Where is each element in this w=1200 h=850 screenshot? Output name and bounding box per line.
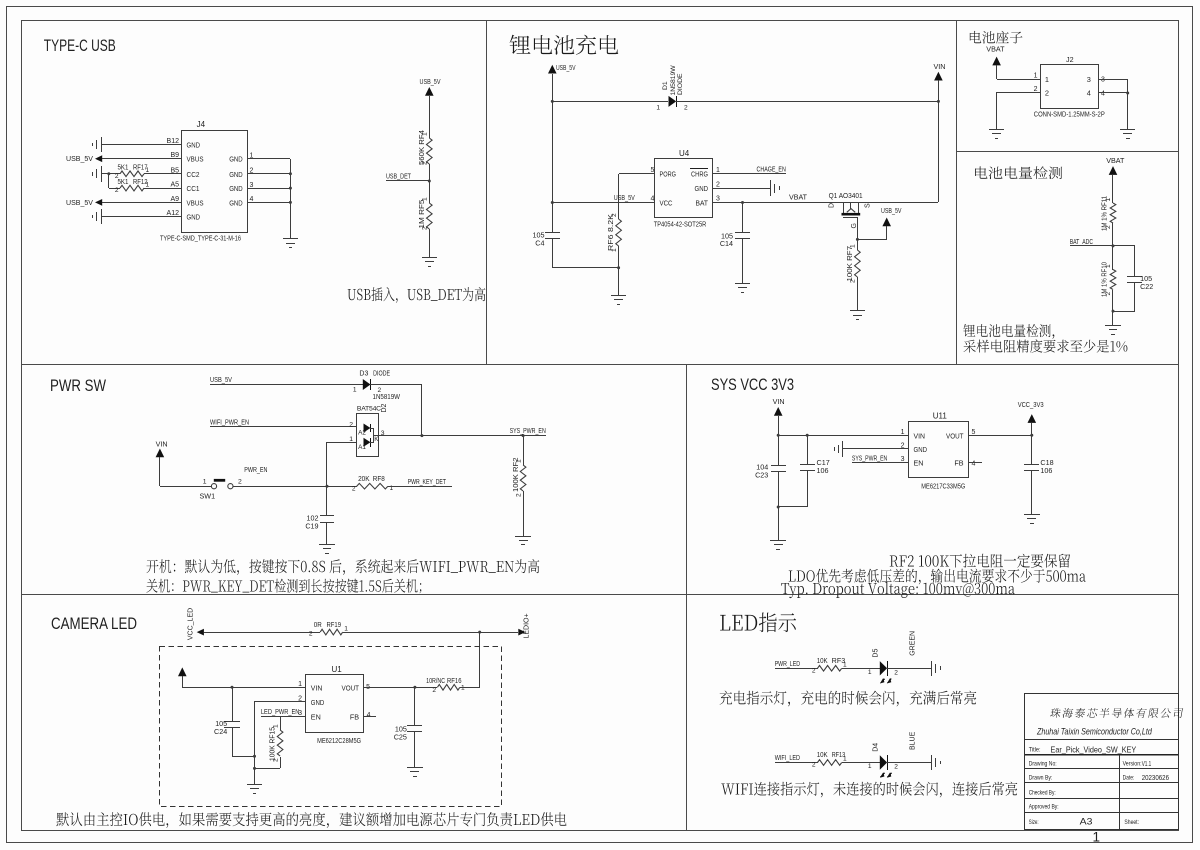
svg-text:VCC: VCC	[660, 198, 673, 207]
company name CJK	[1050, 708, 1184, 718]
svg-text:1: 1	[843, 662, 847, 669]
svg-text:LEDIO+: LEDIO+	[524, 613, 531, 638]
wire PORG to RF6 branch	[619, 173, 654, 175]
wire WIFI_PWR_EN to BAT54C pin2	[210, 426, 356, 428]
svg-text:10R/NC: 10R/NC	[426, 678, 445, 685]
svg-text:VBUS: VBUS	[187, 155, 204, 164]
svg-text:106: 106	[817, 466, 829, 475]
svg-text:Drawn By:: Drawn By:	[1029, 774, 1053, 781]
svg-text:3: 3	[901, 456, 905, 463]
svg-text:20K: 20K	[358, 476, 370, 483]
section title 电池座子	[970, 31, 1023, 44]
svg-text:5K1: 5K1	[118, 179, 129, 186]
svg-text:Sheet:: Sheet:	[1124, 819, 1139, 826]
ground under RF2	[523, 528, 525, 536]
resistor RF12 5K1	[120, 185, 144, 191]
note RF2 keep	[890, 554, 1070, 568]
svg-text:1: 1	[146, 181, 150, 188]
resistor RF2 100K pulldown	[523, 436, 525, 465]
power arrow inside dashed box	[178, 667, 187, 676]
capacitor C24 105	[232, 687, 234, 721]
wire CC2 row	[101, 173, 120, 175]
svg-text:1N5819W: 1N5819W	[670, 65, 677, 96]
svg-text:USB_5V: USB_5V	[556, 63, 576, 72]
svg-text:C24: C24	[214, 727, 227, 736]
wire RF6 bottom	[618, 246, 620, 268]
svg-text:3: 3	[716, 196, 720, 203]
svg-text:VIN: VIN	[156, 440, 168, 449]
svg-text:2: 2	[378, 387, 382, 394]
svg-text:1: 1	[1093, 830, 1101, 845]
svg-text:3: 3	[1087, 75, 1091, 84]
svg-text:2: 2	[272, 758, 279, 762]
svg-text:1: 1	[716, 167, 720, 174]
capacitor C19 102	[326, 486, 328, 516]
svg-text:VIN: VIN	[914, 431, 926, 440]
svg-text:CAMERA LED: CAMERA LED	[51, 614, 137, 633]
svg-text:2: 2	[1045, 89, 1049, 98]
svg-text:Approved By:: Approved By:	[1029, 804, 1059, 811]
branch to C22	[1113, 245, 1135, 247]
svg-text:Checked By:: Checked By:	[1029, 790, 1056, 797]
wire RF4 to node USB_DET	[429, 164, 431, 203]
svg-text:2: 2	[238, 479, 242, 486]
svg-text:1N5819W: 1N5819W	[373, 394, 401, 401]
svg-text:G: G	[851, 223, 858, 228]
svg-text:2: 2	[352, 486, 356, 493]
svg-text:1: 1	[422, 197, 429, 201]
section divider vertical between PWR SW and SYS VCC 3V3	[686, 365, 688, 594]
svg-text:2: 2	[894, 764, 898, 771]
svg-text:D: D	[829, 203, 836, 208]
rotated ground at U11 GND	[843, 448, 909, 450]
connector J4	[182, 131, 248, 233]
wire RF16 to corner	[460, 687, 480, 689]
wire USB_5V to D3	[210, 384, 363, 386]
top wire RF19 to LEDIO+	[343, 632, 518, 634]
svg-text:BAT: BAT	[696, 198, 709, 207]
wire VIN to SW1	[160, 486, 211, 488]
svg-text:A2: A2	[358, 430, 366, 437]
svg-text:D3: D3	[359, 371, 368, 378]
note battery gauge line2	[964, 339, 1128, 352]
svg-text:1: 1	[353, 387, 357, 394]
svg-text:RF19: RF19	[327, 622, 342, 629]
note power off	[146, 579, 421, 594]
title block frame	[1025, 694, 1179, 830]
FB stub	[968, 462, 982, 464]
svg-text:PORG: PORG	[660, 170, 677, 179]
svg-text:2: 2	[422, 226, 429, 230]
svg-text:GND: GND	[914, 445, 928, 454]
svg-text:GND: GND	[229, 184, 243, 193]
svg-text:RF6 8.2K: RF6 8.2K	[608, 214, 615, 251]
rotated ground at U4 GND	[712, 188, 770, 190]
svg-text:2: 2	[894, 669, 898, 676]
section divider horizontal between battery socket and battery gauge	[957, 151, 1179, 153]
svg-text:VCC_LED: VCC_LED	[188, 608, 195, 640]
ground at J4 pin B12	[101, 137, 103, 152]
push button SW1	[211, 484, 216, 489]
svg-text:EN: EN	[311, 712, 321, 721]
svg-text:10K: 10K	[817, 658, 828, 665]
section divider vertical between charging and battery column	[956, 21, 958, 365]
svg-text:2: 2	[298, 695, 302, 702]
svg-text:Version:: Version:	[1123, 760, 1142, 767]
section title 电池电量检测	[975, 166, 1062, 179]
svg-text:GREEN: GREEN	[910, 631, 917, 656]
note LDO dropout	[789, 569, 1086, 585]
wire RF5 to ground	[429, 229, 431, 250]
svg-text:V1.1: V1.1	[1142, 761, 1152, 768]
wire USB_5V vertical	[552, 74, 554, 232]
svg-text:S: S	[865, 203, 872, 208]
ground under RF10	[1112, 317, 1114, 325]
svg-text:DIODE: DIODE	[677, 73, 684, 95]
IC U4 TP4054	[655, 159, 713, 218]
note camera led supply	[56, 812, 566, 828]
VIN vertical wire	[938, 80, 940, 202]
IC U11 ME6217C33M5G	[909, 422, 969, 478]
rotated ground	[931, 755, 933, 770]
svg-text:U11: U11	[933, 412, 948, 421]
svg-text:BLUE: BLUE	[910, 731, 917, 750]
section title 锂电池充电	[510, 35, 619, 55]
wire VOUT to VCC_3V3	[968, 435, 1032, 437]
svg-text:ME6217C33M5G: ME6217C33M5G	[921, 484, 965, 491]
svg-text:1: 1	[868, 763, 872, 770]
wire BAT54C pin1 down to key line	[327, 442, 356, 444]
svg-text:1: 1	[349, 436, 353, 443]
svg-text:CC2: CC2	[187, 170, 200, 179]
svg-text:USB_5V: USB_5V	[420, 77, 441, 86]
resistor RF16 10R/NC	[437, 685, 459, 691]
top wire D1 to VIN corner	[676, 101, 938, 103]
svg-text:C25: C25	[394, 733, 407, 742]
svg-text:GND: GND	[229, 155, 243, 164]
svg-text:1: 1	[515, 459, 522, 463]
wire J2 pin1 to VBAT	[997, 79, 1040, 81]
svg-text:D5: D5	[872, 649, 879, 658]
svg-text:2: 2	[611, 213, 618, 217]
svg-text:GND: GND	[229, 170, 243, 179]
svg-text:GND: GND	[187, 140, 201, 149]
resistor RF3 10K	[818, 666, 842, 672]
ground under bus	[254, 776, 256, 784]
svg-text:2: 2	[422, 161, 429, 165]
svg-text:1: 1	[868, 669, 872, 676]
capacitor C17 106	[807, 435, 809, 464]
svg-text:ME6212C28M5G: ME6212C28M5G	[317, 738, 361, 745]
wire B9	[102, 158, 182, 160]
resistor RF17 5K1	[120, 171, 144, 177]
section divider vertical between CAMERA LED and LED indicator	[686, 594, 688, 830]
svg-text:3: 3	[298, 710, 302, 717]
section divider vertical between TYPE-C USB and charging	[486, 21, 488, 365]
svg-text:2: 2	[1105, 225, 1112, 229]
svg-text:C19: C19	[305, 522, 318, 531]
svg-text:WIFI_LED: WIFI_LED	[775, 753, 800, 762]
wire LEDIO+ down to RF16	[479, 632, 481, 687]
svg-text:VBUS: VBUS	[187, 198, 204, 207]
ground under C25	[414, 760, 416, 768]
svg-text:4: 4	[1101, 90, 1105, 97]
svg-text:USB_5V: USB_5V	[66, 154, 93, 163]
svg-text:1: 1	[1105, 264, 1112, 268]
svg-text:1: 1	[656, 105, 660, 112]
ground at CC resistors	[101, 166, 103, 182]
svg-text:VIN: VIN	[934, 62, 946, 71]
svg-text:LED_PWR_EN: LED_PWR_EN	[261, 707, 300, 716]
svg-text:2: 2	[812, 667, 816, 674]
wire RF3 to D5	[842, 668, 880, 670]
svg-text:4: 4	[1087, 89, 1091, 98]
svg-text:Size:: Size:	[1029, 819, 1039, 826]
svg-text:PWR_EN: PWR_EN	[244, 465, 267, 474]
LED D4 BLUE	[880, 755, 887, 769]
svg-text:C23: C23	[755, 471, 768, 480]
wire to PWR_KEY_DET	[388, 486, 452, 488]
svg-text:Drawing No:: Drawing No:	[1029, 760, 1057, 767]
capacitor C22 105	[1127, 276, 1142, 278]
note USB detect	[348, 287, 486, 303]
svg-text:2: 2	[115, 187, 119, 194]
svg-text:5: 5	[651, 167, 655, 174]
ground under C14	[742, 275, 744, 283]
section divider horizontal row2/row3	[22, 594, 1179, 596]
wire RF13 to D4	[842, 762, 880, 764]
wire D4 to ground	[887, 762, 931, 764]
wire VIN to U11	[778, 435, 909, 437]
wire VOUT	[364, 687, 437, 689]
svg-text:WIFI_PWR_EN: WIFI_PWR_EN	[210, 417, 249, 426]
resistor RF8 20K	[357, 483, 388, 489]
wire B12	[101, 144, 182, 146]
svg-text:CHAGE_EN: CHAGE_EN	[757, 165, 786, 174]
note charge LED	[720, 691, 977, 707]
svg-text:VIN: VIN	[311, 683, 323, 692]
svg-text:100K RF7: 100K RF7	[847, 246, 854, 282]
wire BAT to Q1	[712, 202, 938, 204]
wires J4 GND pins 1-4 to ground bus	[248, 158, 290, 160]
svg-text:1: 1	[203, 479, 207, 486]
wire to U1 VIN	[182, 687, 306, 689]
capacitor C23 104	[771, 465, 786, 467]
resistor RF4 560K	[427, 138, 433, 164]
capacitor C14 105	[741, 201, 744, 204]
wire D3 to output node	[370, 384, 422, 386]
svg-text:3: 3	[250, 182, 254, 189]
svg-text:VBAT: VBAT	[1106, 156, 1125, 165]
wire WIFI_LED to RF13	[775, 762, 818, 764]
wire junction down to CC1 row	[108, 174, 110, 188]
wire D5 to ground	[887, 668, 931, 670]
svg-text:SYS VCC 3V3: SYS VCC 3V3	[711, 375, 794, 394]
wire VCC	[552, 202, 654, 204]
svg-text:5: 5	[972, 429, 976, 436]
svg-text:20230626: 20230626	[1142, 775, 1169, 782]
svg-text:CHRG: CHRG	[691, 170, 708, 179]
svg-text:C14: C14	[720, 239, 733, 248]
svg-text:EN: EN	[914, 459, 924, 468]
svg-text:2: 2	[716, 181, 720, 188]
svg-text:A3: A3	[1080, 817, 1093, 828]
note power on	[147, 559, 540, 575]
svg-text:DIODE: DIODE	[373, 371, 390, 378]
svg-text:SYS_PWR_EN: SYS_PWR_EN	[510, 426, 546, 435]
svg-text:TYPE-C USB: TYPE-C USB	[44, 36, 116, 55]
connector J2	[1041, 65, 1099, 109]
resistor RF11 1M 1%	[1110, 203, 1116, 223]
ground bus vertical	[290, 159, 292, 239]
svg-text:4: 4	[651, 196, 655, 203]
svg-text:2: 2	[349, 422, 353, 429]
svg-text:PWR SW: PWR SW	[50, 376, 106, 395]
resistor RF7 100K	[857, 239, 859, 250]
svg-text:USB_5V: USB_5V	[881, 206, 902, 215]
svg-text:USB_5V: USB_5V	[66, 198, 93, 207]
note battery gauge line1	[963, 324, 1054, 339]
wire U1 GND	[254, 701, 306, 703]
svg-text:D1: D1	[662, 81, 669, 90]
svg-text:A9: A9	[170, 196, 179, 203]
svg-text:D4: D4	[872, 743, 879, 752]
section title LED指示	[720, 613, 796, 633]
LED D5 GREEN	[880, 661, 887, 675]
svg-text:2: 2	[1105, 292, 1112, 296]
svg-text:Zhuhai Taixin Semiconductor Co: Zhuhai Taixin Semiconductor Co,Ltd	[1036, 727, 1153, 737]
svg-text:USB_5V: USB_5V	[614, 193, 635, 202]
resistor RF6 8.2K	[616, 219, 622, 246]
svg-text:2: 2	[812, 762, 816, 769]
svg-text:1: 1	[901, 429, 905, 436]
svg-text:Title:: Title:	[1029, 747, 1041, 754]
svg-text:100K RF15: 100K RF15	[270, 727, 277, 761]
svg-text:VCC_3V3: VCC_3V3	[1018, 400, 1044, 409]
capacitor C18 106	[1031, 435, 1033, 464]
top wire to D1	[552, 101, 668, 103]
svg-text:VOUT: VOUT	[946, 431, 964, 440]
svg-text:CC1: CC1	[187, 184, 200, 193]
svg-text:10K: 10K	[817, 752, 828, 759]
svg-text:A1: A1	[358, 444, 366, 451]
svg-text:U4: U4	[679, 149, 690, 158]
ground at J4 pin A12	[101, 209, 103, 224]
svg-text:FB: FB	[350, 712, 359, 721]
GND bus vertical	[254, 702, 256, 776]
svg-text:USB_5V: USB_5V	[210, 375, 232, 384]
svg-text:TYPE-C-SMD_TYPE-C-31-M-16: TYPE-C-SMD_TYPE-C-31-M-16	[160, 236, 241, 243]
ground under J4 bus	[283, 238, 298, 240]
svg-text:SYS_PWR_EN: SYS_PWR_EN	[852, 453, 887, 462]
dashed group box	[160, 647, 502, 807]
svg-text:VIN: VIN	[773, 397, 785, 406]
svg-text:1: 1	[611, 248, 618, 252]
svg-text:VBAT: VBAT	[789, 193, 808, 202]
wire J2 pin2 to ground	[996, 92, 1040, 94]
svg-text:PWR_KEY_DET: PWR_KEY_DET	[408, 477, 447, 486]
svg-text:Ear_Pick_Video_SW_KEY: Ear_Pick_Video_SW_KEY	[1051, 745, 1137, 755]
resistor RF10 1M 1%	[1112, 246, 1114, 270]
resistor RF5 1M	[427, 203, 433, 229]
bottom wire C4 to RF6	[552, 267, 619, 269]
ground under RF6	[618, 268, 620, 288]
svg-text:1: 1	[422, 132, 429, 136]
svg-text:FB: FB	[954, 459, 963, 468]
wire EN	[261, 716, 306, 718]
wires J2 pins 3,4	[1098, 79, 1128, 81]
svg-text:2: 2	[684, 105, 688, 112]
svg-text:CONN-SMD-1.25MM-S-2P: CONN-SMD-1.25MM-S-2P	[1034, 111, 1105, 118]
svg-text:2: 2	[432, 687, 436, 694]
top wire VCC_LED to RF19	[204, 632, 320, 634]
svg-text:VBAT: VBAT	[986, 45, 1005, 54]
svg-text:GND: GND	[311, 698, 325, 707]
wire USB_5V to RF4	[429, 96, 431, 138]
svg-text:VOUT: VOUT	[342, 683, 360, 692]
capacitor C4 105	[545, 232, 560, 234]
svg-text:GND: GND	[187, 213, 201, 222]
svg-text:1: 1	[344, 626, 348, 633]
diode D1 1N5819W	[669, 96, 677, 107]
svg-text:2: 2	[850, 279, 857, 283]
wire SW1 to RF8	[233, 486, 357, 488]
svg-text:1: 1	[843, 756, 847, 763]
svg-text:Q1 AO3401: Q1 AO3401	[829, 191, 863, 200]
svg-text:PWR_LED: PWR_LED	[775, 659, 800, 668]
svg-text:SW1: SW1	[200, 492, 216, 501]
svg-text:C22: C22	[1140, 282, 1153, 291]
wire EN	[852, 462, 909, 464]
svg-text:A5: A5	[170, 182, 179, 189]
svg-text:BAT54C: BAT54C	[357, 406, 381, 413]
svg-text:5K1: 5K1	[118, 165, 129, 172]
svg-text:B12: B12	[167, 138, 180, 145]
svg-text:1: 1	[850, 244, 857, 248]
svg-text:Date:: Date:	[1123, 774, 1135, 781]
svg-text:4: 4	[972, 461, 976, 468]
section divider horizontal row1/row2	[22, 364, 1179, 366]
ground under RF7	[857, 303, 859, 311]
resistor RF15 100K	[280, 716, 282, 730]
output wire SYS_PWR_EN	[378, 435, 546, 437]
svg-text:2: 2	[309, 631, 313, 638]
dual diode D2 BAT54C	[357, 414, 379, 457]
resistor RF19 0R	[320, 629, 343, 635]
ground under C18	[1031, 506, 1033, 514]
capacitor C25 105	[414, 687, 416, 725]
svg-text:106: 106	[1040, 466, 1052, 475]
wire PWR_LED to RF3	[775, 668, 818, 670]
svg-text:GND: GND	[229, 198, 243, 207]
svg-text:4: 4	[367, 712, 371, 719]
ground under RF5	[429, 250, 431, 258]
svg-text:J2: J2	[1066, 55, 1074, 64]
svg-text:1: 1	[272, 724, 279, 728]
svg-text:0R: 0R	[314, 622, 322, 629]
svg-text:1: 1	[146, 167, 150, 174]
svg-text:J4: J4	[197, 120, 206, 129]
svg-text:1M RF5: 1M RF5	[419, 199, 426, 228]
note typ dropout voltage	[781, 582, 1015, 598]
svg-text:RF8: RF8	[373, 476, 385, 483]
svg-text:USB_DET: USB_DET	[386, 172, 411, 181]
IC U1 ME6212C28M5G	[306, 675, 364, 733]
wire CC1 row	[109, 188, 120, 190]
svg-text:TP4054-42-SOT25R: TP4054-42-SOT25R	[654, 222, 707, 229]
rotated ground	[931, 661, 933, 676]
resistor RF13 10K	[818, 760, 842, 766]
